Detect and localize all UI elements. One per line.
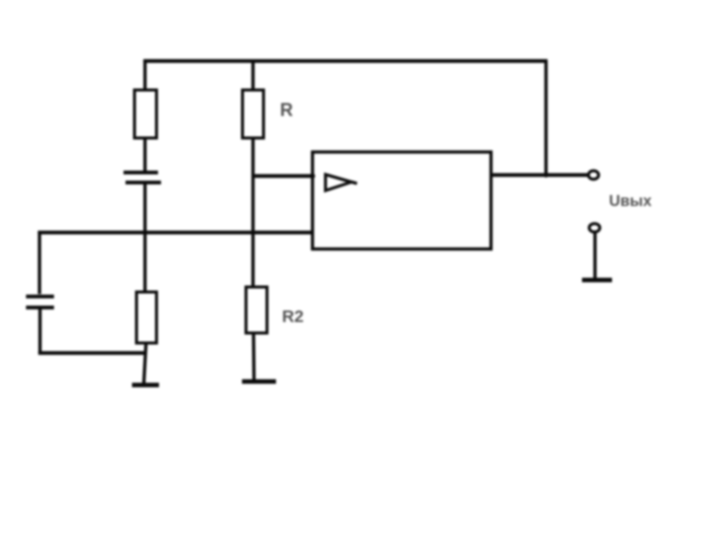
svg-text:R: R (280, 100, 293, 120)
svg-text:Uвых: Uвых (609, 193, 652, 210)
svg-text:R2: R2 (282, 307, 304, 326)
